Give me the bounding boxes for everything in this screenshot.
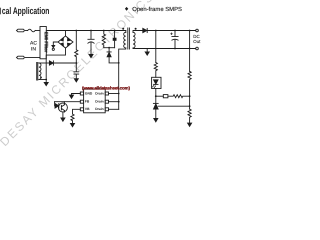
wire divider middle	[189, 96, 191, 109]
transformer core	[128, 28, 130, 49]
IC pin pad FB	[80, 100, 83, 103]
VB ground	[71, 124, 75, 127]
node output cap top	[174, 30, 176, 32]
wire secondary top rail	[147, 30, 195, 32]
node bulk cap top	[90, 30, 92, 32]
wire fuse to EMI filter	[35, 30, 40, 32]
title fragment letter i	[0, 8, 2, 15]
vcc capacitor	[74, 63, 79, 79]
IC pin pad Drain1	[105, 92, 108, 95]
wire opto collector	[63, 102, 65, 105]
transformer primary winding	[124, 32, 126, 48]
primary ground	[44, 83, 48, 86]
feedback series resistor	[154, 63, 157, 78]
output diode	[143, 28, 147, 32]
wire bridge bottom to primary ground	[46, 48, 65, 83]
fuse F1	[28, 29, 36, 32]
svg-text:GND: GND	[85, 91, 93, 95]
AC plug terminal bottom	[17, 56, 25, 59]
opto LED primary side	[55, 104, 59, 109]
bullet diamond	[125, 7, 128, 11]
wire aux diode to vcc node	[53, 62, 76, 64]
transformer secondary winding	[133, 32, 135, 48]
wire secondary bottom rail	[133, 47, 196, 50]
top rail primary	[46, 30, 126, 32]
wire FB pin to opto	[55, 101, 81, 103]
wire primary bottom to drain bus	[119, 48, 126, 109]
optocoupler LED box	[152, 77, 161, 88]
node drain1	[118, 93, 120, 95]
controller IC body	[84, 89, 106, 113]
wire GND pin	[72, 94, 81, 96]
label EMI Filter	[44, 32, 49, 53]
clamp resistor	[102, 31, 105, 48]
comp resistor	[168, 95, 190, 98]
wire VB pin	[73, 109, 81, 114]
wire secondary top stub	[133, 31, 143, 33]
node drain bus clamp	[118, 62, 120, 64]
divider ground	[188, 123, 192, 126]
IC pin pad Drain3	[105, 108, 108, 111]
wire drain1	[109, 93, 119, 95]
output capacitor	[172, 31, 178, 49]
node startup resistor top	[75, 30, 77, 32]
svg-text:Out: Out	[193, 39, 201, 44]
aux phase dot	[40, 77, 42, 79]
wire clamp diode to drain bus	[109, 57, 119, 63]
IC pin pad GND	[80, 92, 83, 95]
wire drain3	[109, 108, 119, 110]
watermark diagonal gray	[0, 0, 157, 148]
EMI filter block	[40, 27, 46, 59]
optocoupler transistor body	[58, 103, 67, 112]
DC out + terminal	[196, 29, 199, 32]
TL431 ground	[154, 119, 158, 122]
svg-text:Drain: Drain	[95, 107, 103, 111]
aux diode	[49, 61, 53, 65]
node clamp-diode	[108, 47, 110, 49]
wire drain2	[109, 101, 119, 103]
comp capacitor box	[163, 95, 168, 98]
primary phase dot	[122, 28, 124, 30]
aux winding coil	[39, 63, 41, 79]
IC pin pad Drain2	[105, 100, 108, 103]
node output cap bottom	[174, 48, 176, 50]
startup resistor	[75, 31, 78, 64]
wire bridge top stub	[65, 31, 67, 37]
svg-text:Open-frame SMPS: Open-frame SMPS	[132, 6, 182, 13]
node feedback tap	[155, 30, 157, 32]
wire aux bottom	[39, 79, 46, 81]
node vcc	[75, 62, 77, 64]
node comp branch	[155, 95, 157, 97]
ref wire TL431	[158, 105, 189, 107]
opto emitter ground	[61, 118, 65, 121]
svg-text:cal Application: cal Application	[2, 6, 50, 17]
shunt regulator TL431	[153, 102, 158, 104]
wire aux top to diode	[39, 62, 50, 64]
wire opto LED anode riser	[54, 102, 56, 106]
wire feedback drop	[155, 31, 157, 63]
secondary ground	[146, 49, 148, 52]
AC plug terminal top	[17, 29, 25, 32]
bridge AC-left arrow terminal	[53, 42, 58, 46]
wire divider drop	[189, 31, 191, 72]
wire primary top stub	[125, 31, 127, 33]
clamp bottom bar	[104, 47, 115, 49]
IC ground	[70, 95, 74, 98]
opto transistor symbol	[61, 105, 64, 111]
bridge rectifier	[58, 36, 73, 48]
comp branch wire	[156, 95, 164, 97]
svg-text:IN: IN	[31, 47, 36, 53]
svg-text:Drain: Drain	[95, 100, 103, 104]
svg-text:(www.alldatasheet.com): (www.alldatasheet.com)	[82, 85, 130, 90]
DC out - terminal	[196, 47, 199, 50]
node clamp cap top	[114, 30, 116, 32]
wire plug2 to EMI filter	[25, 57, 40, 59]
svg-text:FB: FB	[85, 100, 90, 104]
clamp capacitor	[114, 31, 116, 48]
node divider mid1	[189, 95, 191, 97]
node divider top	[189, 30, 191, 32]
svg-text:VB: VB	[85, 107, 90, 111]
vcc ground	[74, 79, 78, 82]
divider resistor upper	[188, 71, 191, 96]
IC pin pad VB	[80, 108, 83, 111]
aux winding core	[37, 63, 38, 81]
output cap plus sign	[171, 33, 173, 35]
node divider rail crossing	[189, 48, 191, 50]
node clamp resistor top	[103, 30, 105, 32]
wire plug1 to fuse	[25, 30, 27, 32]
optocoupler LED	[154, 80, 158, 84]
divider resistor lower	[188, 109, 191, 123]
wire opto emitter	[63, 111, 65, 118]
svg-text:Drain: Drain	[95, 91, 103, 95]
node aux-bridge junction	[45, 79, 47, 81]
VB resistor	[71, 114, 74, 123]
svg-text:EMI Filter: EMI Filter	[44, 32, 49, 53]
secondary phase dot	[135, 28, 137, 30]
bulk capacitor	[88, 31, 94, 55]
node drain2	[118, 101, 120, 103]
node divider mid2	[189, 105, 191, 107]
clamp diode	[107, 48, 111, 52]
wire LED to TL431	[155, 89, 157, 104]
bulk cap ground	[89, 55, 93, 58]
